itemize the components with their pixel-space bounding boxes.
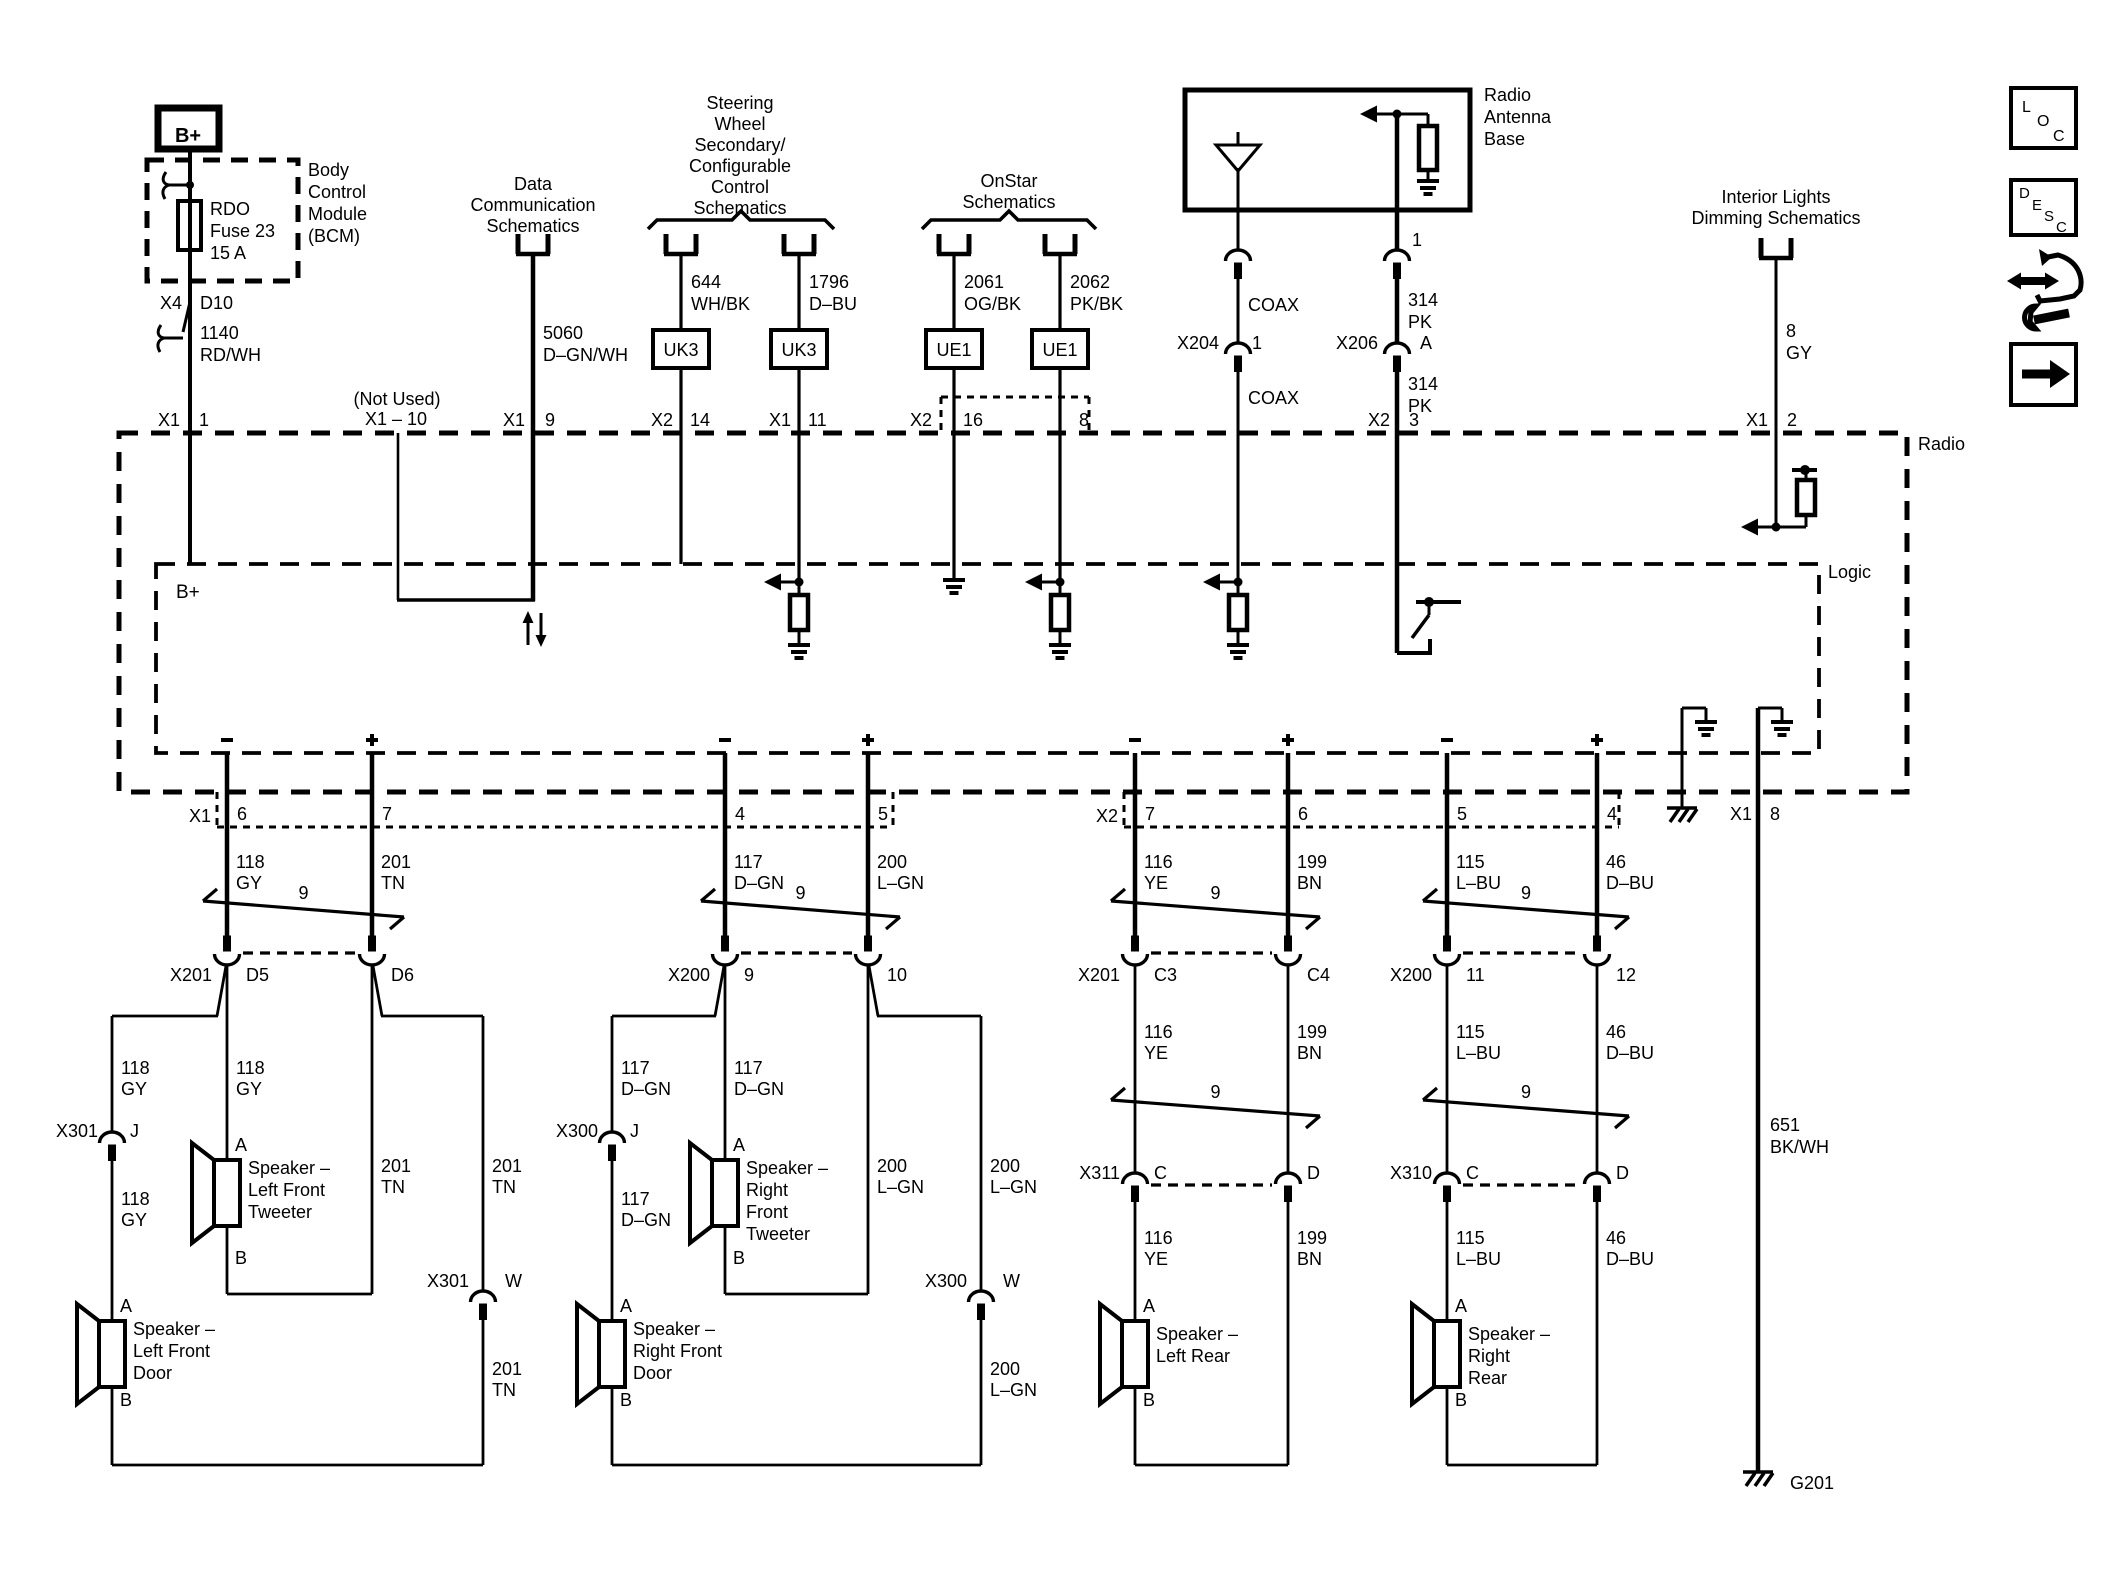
wire return right rear <box>1596 1202 1599 1465</box>
svg-text:118: 118 <box>121 1058 150 1078</box>
connector inline coax upper <box>1226 250 1251 261</box>
svg-text:D–GN: D–GN <box>734 873 784 893</box>
svg-text:GY: GY <box>236 1079 262 1099</box>
twisted pair mark right front <box>701 901 900 917</box>
svg-text:X301: X301 <box>427 1271 469 1291</box>
svg-text:L–GN: L–GN <box>990 1177 1037 1197</box>
svg-text:199: 199 <box>1297 852 1327 872</box>
wire door speaker return right front <box>611 1387 614 1465</box>
wire speaker return bottom left rear <box>1134 1387 1137 1465</box>
svg-text:X1: X1 <box>1730 804 1752 824</box>
wire 1796 D-BU <box>797 256 800 582</box>
svg-text:B+: B+ <box>175 125 201 147</box>
wire 116 left rear middle <box>1134 965 1137 1173</box>
svg-text:A: A <box>1420 333 1432 353</box>
wire 8 GY <box>1775 260 1778 527</box>
wire 199 left rear middle <box>1287 965 1290 1173</box>
svg-text:D–BU: D–BU <box>809 294 857 314</box>
svg-text:X2: X2 <box>1096 806 1118 826</box>
svg-text:E: E <box>2032 197 2042 214</box>
dashed connector link X201 <box>243 951 356 954</box>
dashed connector link X200 <box>1463 951 1581 954</box>
svg-text:OG/BK: OG/BK <box>964 294 1021 314</box>
svg-text:B: B <box>235 1248 247 1268</box>
svg-text:9: 9 <box>1521 1082 1531 1102</box>
wire speaker plus left front (pin 7) <box>370 753 375 936</box>
svg-text:Tweeter: Tweeter <box>248 1202 312 1222</box>
svg-text:X1: X1 <box>189 806 211 826</box>
connector X300 pin J <box>600 1132 625 1143</box>
svg-text:Radio: Radio <box>1918 434 1965 454</box>
svg-text:D10: D10 <box>200 293 233 313</box>
polarity minus right front <box>719 738 731 742</box>
svg-text:Front: Front <box>746 1202 788 1222</box>
radio antenna base box <box>1185 90 1470 210</box>
svg-text:116: 116 <box>1144 1228 1173 1248</box>
logic dashed box <box>156 564 1819 753</box>
svg-text:201: 201 <box>492 1359 522 1379</box>
connector X201 pin D6 <box>369 936 376 951</box>
svg-text:5: 5 <box>878 804 888 824</box>
svg-text:10: 10 <box>887 965 907 985</box>
svg-text:L–GN: L–GN <box>877 1177 924 1197</box>
wire 314 PK antenna power <box>1395 114 1400 250</box>
speaker Right Rear <box>1434 1321 1460 1387</box>
ground on wire 2061 in logic <box>943 578 965 582</box>
ground in antenna base <box>1417 179 1439 183</box>
svg-text:16: 16 <box>963 410 983 430</box>
svg-text:118: 118 <box>121 1189 150 1209</box>
svg-text:9: 9 <box>1210 1082 1220 1102</box>
svg-text:Left Rear: Left Rear <box>1156 1346 1230 1366</box>
svg-text:X300: X300 <box>925 1271 967 1291</box>
chassis ground below radio left <box>1667 806 1697 810</box>
twisted pair mark left front <box>203 901 404 917</box>
svg-text:GY: GY <box>236 873 262 893</box>
svg-text:9: 9 <box>1210 883 1220 903</box>
svg-text:C3: C3 <box>1154 965 1177 985</box>
svg-text:D–GN: D–GN <box>734 1079 784 1099</box>
svg-text:GY: GY <box>121 1079 147 1099</box>
svg-text:WH/BK: WH/BK <box>691 294 750 314</box>
svg-text:L–BU: L–BU <box>1456 873 1501 893</box>
svg-text:YE: YE <box>1144 873 1168 893</box>
svg-text:Base: Base <box>1484 129 1525 149</box>
svg-text:BN: BN <box>1297 1043 1322 1063</box>
svg-text:2: 2 <box>1787 410 1797 430</box>
dashed connector link X310 <box>1463 1183 1581 1186</box>
off-page connector interior lights dimming <box>1759 238 1764 258</box>
svg-text:Door: Door <box>633 1363 672 1383</box>
wire speaker plus right rear (pin 4) <box>1595 753 1600 936</box>
svg-text:PK: PK <box>1408 312 1432 332</box>
svg-text:9: 9 <box>744 965 754 985</box>
svg-text:UE1: UE1 <box>1042 340 1077 360</box>
speaker tweeter right front <box>712 1160 738 1226</box>
svg-text:117: 117 <box>621 1058 650 1078</box>
svg-text:X2: X2 <box>651 410 673 430</box>
wire branch plus to door return left front <box>373 966 382 1016</box>
component UK3 on wire 1796 <box>771 330 827 368</box>
svg-text:2061: 2061 <box>964 272 1004 292</box>
svg-text:Speaker –: Speaker – <box>248 1158 330 1178</box>
icon vehicle with arrows and wrench <box>2014 277 2052 285</box>
svg-text:B: B <box>1455 1390 1467 1410</box>
svg-text:116: 116 <box>1144 1022 1173 1042</box>
svg-text:UK3: UK3 <box>663 340 698 360</box>
svg-text:Dimming Schematics: Dimming Schematics <box>1691 208 1860 228</box>
svg-text:1: 1 <box>1412 230 1422 250</box>
svg-text:RDO: RDO <box>210 199 250 219</box>
connector X311 pin D <box>1276 1173 1301 1184</box>
wire speaker minus right front (pin 4) <box>723 753 728 936</box>
svg-text:Wheel: Wheel <box>714 114 765 134</box>
svg-text:200: 200 <box>990 1156 1020 1176</box>
svg-text:118: 118 <box>236 1058 265 1078</box>
svg-text:X201: X201 <box>170 965 212 985</box>
svg-text:9: 9 <box>1521 883 1531 903</box>
svg-text:X1: X1 <box>769 410 791 430</box>
svg-text:651: 651 <box>1770 1115 1800 1135</box>
connector X200 pin 9 <box>722 936 729 951</box>
internal ground left in logic <box>1681 708 1684 807</box>
wire 644 WH/BK <box>679 256 682 564</box>
svg-text:W: W <box>1003 1271 1020 1291</box>
wire speaker plus left rear (pin 6) <box>1286 753 1291 936</box>
svg-text:115: 115 <box>1456 1228 1485 1248</box>
speaker tweeter left front <box>214 1160 240 1226</box>
svg-text:117: 117 <box>734 1058 763 1078</box>
connector X310 pin D <box>1585 1173 1610 1184</box>
svg-text:O: O <box>2037 113 2049 130</box>
clip junction in BCM <box>186 181 194 189</box>
resistor in antenna base <box>1419 126 1437 170</box>
wire to speaker left rear <box>1134 1202 1137 1321</box>
wire 5060 D-GN/WH <box>531 253 536 601</box>
wire branch to door right front <box>715 966 724 1016</box>
svg-text:8: 8 <box>1770 804 1780 824</box>
polarity plus left rear <box>1282 738 1294 742</box>
connector X200 pin 11 <box>1444 936 1451 951</box>
svg-text:X310: X310 <box>1390 1163 1432 1183</box>
switch antenna relay in logic <box>1397 651 1430 655</box>
wire COAX antenna lead <box>1237 210 1240 250</box>
svg-text:(BCM): (BCM) <box>308 226 360 246</box>
wire 1140 RD/WH from B+ to Radio (net B+) <box>188 148 192 564</box>
svg-text:L–GN: L–GN <box>990 1380 1037 1400</box>
internal ground right in logic <box>1756 708 1761 753</box>
svg-text:117: 117 <box>621 1189 650 1209</box>
connector X201 pin D5 <box>224 936 231 951</box>
svg-text:11: 11 <box>1466 965 1485 985</box>
svg-text:L–GN: L–GN <box>877 873 924 893</box>
svg-text:201: 201 <box>492 1156 522 1176</box>
svg-text:Module: Module <box>308 204 367 224</box>
svg-text:Steering: Steering <box>706 93 773 113</box>
twisted pair mark left rear lower <box>1111 1100 1320 1116</box>
svg-text:Antenna: Antenna <box>1484 107 1552 127</box>
connector X200 pin 10 <box>865 936 872 951</box>
icon DESC box <box>2011 180 2076 235</box>
svg-text:Door: Door <box>133 1363 172 1383</box>
off-page connector steering wheel 1 <box>664 234 669 254</box>
wire speaker minus left front (pin 6) <box>225 753 230 936</box>
wire branch plus to door return right front <box>869 966 878 1016</box>
svg-text:1: 1 <box>1252 333 1262 353</box>
svg-text:D–BU: D–BU <box>1606 873 1654 893</box>
ground G201 <box>1743 1470 1773 1474</box>
svg-text:D–BU: D–BU <box>1606 1249 1654 1269</box>
svg-text:46: 46 <box>1606 852 1626 872</box>
svg-text:115: 115 <box>1456 852 1485 872</box>
connector dashed box X1 speaker pins <box>216 792 219 827</box>
svg-text:B: B <box>620 1390 632 1410</box>
svg-text:1: 1 <box>199 410 209 430</box>
svg-text:C: C <box>2053 128 2065 145</box>
svg-text:Left Front: Left Front <box>133 1341 210 1361</box>
svg-text:644: 644 <box>691 272 721 292</box>
svg-text:UE1: UE1 <box>936 340 971 360</box>
connector X200 pin 12 <box>1594 936 1601 951</box>
svg-text:A: A <box>733 1135 745 1155</box>
svg-text:X206: X206 <box>1336 333 1378 353</box>
svg-text:Communication: Communication <box>470 195 595 215</box>
antenna symbol <box>1237 132 1240 145</box>
component UE1 on wire 2062 <box>1032 330 1088 368</box>
svg-text:A: A <box>1143 1296 1155 1316</box>
body control module BCM dashed box <box>147 160 298 281</box>
off-page connector steering wheel 2 <box>782 234 787 254</box>
svg-text:X200: X200 <box>668 965 710 985</box>
svg-text:L–BU: L–BU <box>1456 1249 1501 1269</box>
svg-text:W: W <box>505 1271 522 1291</box>
svg-text:S: S <box>2044 208 2054 225</box>
svg-text:COAX: COAX <box>1248 388 1299 408</box>
svg-text:6: 6 <box>1298 804 1308 824</box>
svg-text:J: J <box>130 1121 139 1141</box>
svg-text:G201: G201 <box>1790 1473 1834 1493</box>
component UK3 on wire 644 <box>653 330 709 368</box>
svg-text:200: 200 <box>990 1359 1020 1379</box>
svg-text:X1: X1 <box>158 410 180 430</box>
svg-text:B: B <box>1143 1390 1155 1410</box>
svg-text:1796: 1796 <box>809 272 849 292</box>
connector X201 pin C4 <box>1285 936 1292 951</box>
svg-text:3: 3 <box>1409 410 1419 430</box>
svg-text:15 A: 15 A <box>210 243 246 263</box>
polarity minus right rear <box>1441 738 1453 742</box>
off-page connector OnStar 1 <box>937 234 942 254</box>
svg-text:X2: X2 <box>910 410 932 430</box>
svg-text:PK/BK: PK/BK <box>1070 294 1123 314</box>
svg-text:314: 314 <box>1408 290 1438 310</box>
svg-text:Secondary/: Secondary/ <box>694 135 785 155</box>
speaker door right front <box>599 1321 625 1387</box>
svg-text:Speaker –: Speaker – <box>746 1158 828 1178</box>
svg-text:X201: X201 <box>1078 965 1120 985</box>
speaker Left Rear <box>1122 1321 1148 1387</box>
wire return left rear <box>1287 1202 1290 1465</box>
svg-text:12: 12 <box>1616 965 1636 985</box>
connector dashed box X2 OnStar pins <box>941 396 1089 399</box>
dashed connector link X201 <box>1151 951 1272 954</box>
svg-text:6: 6 <box>237 804 247 824</box>
data direction arrows <box>527 621 530 645</box>
svg-text:BK/WH: BK/WH <box>1770 1137 1829 1157</box>
svg-text:A: A <box>620 1296 632 1316</box>
svg-text:Right: Right <box>1468 1346 1510 1366</box>
polarity minus left rear <box>1129 738 1141 742</box>
svg-text:Right Front: Right Front <box>633 1341 722 1361</box>
wire 2062 PK/BK <box>1058 256 1061 582</box>
svg-text:GY: GY <box>1786 343 1812 363</box>
connector X311 pin C <box>1123 1173 1148 1184</box>
svg-text:5060: 5060 <box>543 323 583 343</box>
wire door speaker return left front <box>111 1387 114 1465</box>
svg-text:Speaker –: Speaker – <box>1156 1324 1238 1344</box>
svg-text:200: 200 <box>877 1156 907 1176</box>
svg-text:RD/WH: RD/WH <box>200 345 261 365</box>
svg-text:7: 7 <box>382 804 392 824</box>
svg-text:46: 46 <box>1606 1228 1626 1248</box>
svg-text:314: 314 <box>1408 374 1438 394</box>
svg-text:9: 9 <box>795 883 805 903</box>
svg-text:D: D <box>2019 185 2030 202</box>
svg-text:118: 118 <box>236 852 265 872</box>
svg-text:B: B <box>120 1390 132 1410</box>
svg-text:D–GN: D–GN <box>621 1210 671 1230</box>
wire tweeter return left front <box>226 1226 229 1294</box>
svg-text:14: 14 <box>690 410 710 430</box>
svg-text:9: 9 <box>298 883 308 903</box>
svg-text:X204: X204 <box>1177 333 1219 353</box>
svg-text:D5: D5 <box>246 965 269 985</box>
svg-text:TN: TN <box>492 1177 516 1197</box>
wire 46 right rear middle <box>1596 965 1599 1173</box>
svg-text:OnStar: OnStar <box>980 171 1037 191</box>
svg-text:C: C <box>2056 219 2067 236</box>
off-page connector Data Communication <box>516 234 521 254</box>
svg-text:X300: X300 <box>556 1121 598 1141</box>
svg-text:Rear: Rear <box>1468 1368 1507 1388</box>
icon arrow box <box>2011 344 2076 405</box>
svg-text:C: C <box>1154 1163 1167 1183</box>
polarity plus right rear <box>1591 738 1603 742</box>
svg-text:X1 – 10: X1 – 10 <box>365 409 427 429</box>
svg-text:A: A <box>120 1296 132 1316</box>
svg-text:199: 199 <box>1297 1228 1327 1248</box>
svg-text:117: 117 <box>734 852 763 872</box>
svg-text:C: C <box>1466 1163 1479 1183</box>
svg-text:X301: X301 <box>56 1121 98 1141</box>
dashed connector link X200 <box>741 951 852 954</box>
svg-text:116: 116 <box>1144 852 1173 872</box>
twisted pair mark right rear upper <box>1423 901 1629 917</box>
svg-text:X1: X1 <box>1746 410 1768 430</box>
wire 2061 OG/BK <box>952 256 955 580</box>
wire speaker minus right rear (pin 5) <box>1445 753 1450 936</box>
svg-text:A: A <box>235 1135 247 1155</box>
svg-text:Control: Control <box>308 182 366 202</box>
svg-text:Speaker –: Speaker – <box>633 1319 715 1339</box>
connector X301 pin J <box>100 1132 125 1143</box>
svg-text:D: D <box>1307 1163 1320 1183</box>
svg-text:X200: X200 <box>1390 965 1432 985</box>
resistor assembly on coax in logic <box>1234 578 1243 587</box>
svg-text:Schematics: Schematics <box>693 198 786 218</box>
polarity minus left front <box>221 738 233 742</box>
svg-text:Speaker –: Speaker – <box>133 1319 215 1339</box>
svg-text:8: 8 <box>1079 410 1089 430</box>
svg-text:YE: YE <box>1144 1043 1168 1063</box>
svg-text:B+: B+ <box>176 582 200 603</box>
wire tweeter return right front <box>724 1226 727 1294</box>
svg-text:7: 7 <box>1145 804 1155 824</box>
svg-text:4: 4 <box>735 804 745 824</box>
svg-text:Interior Lights: Interior Lights <box>1721 187 1830 207</box>
svg-text:D: D <box>1616 1163 1629 1183</box>
svg-text:Right: Right <box>746 1180 788 1200</box>
svg-text:8: 8 <box>1786 321 1796 341</box>
svg-text:Body: Body <box>308 160 349 180</box>
svg-text:D–GN/WH: D–GN/WH <box>543 345 628 365</box>
svg-text:199: 199 <box>1297 1022 1327 1042</box>
svg-text:A: A <box>1455 1296 1467 1316</box>
svg-text:Control: Control <box>711 177 769 197</box>
svg-text:Data: Data <box>514 174 553 194</box>
svg-text:4: 4 <box>1607 804 1617 824</box>
svg-text:Speaker –: Speaker – <box>1468 1324 1550 1344</box>
resistor assembly on wire 2062 in logic <box>1056 578 1065 587</box>
svg-text:(Not Used): (Not Used) <box>353 389 440 409</box>
wire 118 to tweeter left front <box>226 965 229 1160</box>
svg-text:Schematics: Schematics <box>486 216 579 236</box>
brace steering wheel group <box>648 211 834 229</box>
twisted pair mark right rear lower <box>1423 1100 1629 1116</box>
svg-text:COAX: COAX <box>1248 295 1299 315</box>
svg-text:BN: BN <box>1297 873 1322 893</box>
arrow and junction in antenna base <box>1393 110 1402 119</box>
dimmer sense network in radio <box>1772 523 1781 532</box>
icon LOC box <box>2011 88 2076 148</box>
svg-text:Radio: Radio <box>1484 85 1531 105</box>
svg-text:X2: X2 <box>1368 410 1390 430</box>
wire 117 to tweeter right front <box>724 965 727 1160</box>
twisted pair mark left rear upper <box>1111 901 1320 917</box>
radio dashed box <box>119 433 1907 792</box>
svg-text:J: J <box>630 1121 639 1141</box>
svg-text:Configurable: Configurable <box>689 156 791 176</box>
svg-text:TN: TN <box>492 1380 516 1400</box>
connector dashed box X2 speaker pins <box>1123 792 1126 827</box>
wire not-used jumper <box>397 433 400 600</box>
svg-text:46: 46 <box>1606 1022 1626 1042</box>
svg-text:L–BU: L–BU <box>1456 1043 1501 1063</box>
wire speaker plus right front (pin 5) <box>866 753 871 936</box>
wire to speaker right rear <box>1446 1202 1449 1321</box>
wire speaker return bottom right rear <box>1446 1387 1449 1465</box>
svg-text:Left Front: Left Front <box>248 1180 325 1200</box>
svg-text:D–GN: D–GN <box>621 1079 671 1099</box>
svg-text:X311: X311 <box>1079 1163 1120 1183</box>
svg-text:11: 11 <box>808 410 827 430</box>
svg-text:B: B <box>733 1248 745 1268</box>
svg-text:GY: GY <box>121 1210 147 1230</box>
wire 115 right rear middle <box>1446 965 1449 1173</box>
svg-text:UK3: UK3 <box>781 340 816 360</box>
wire branch to door left front <box>217 966 226 1016</box>
connector X300 pin W <box>969 1291 994 1302</box>
